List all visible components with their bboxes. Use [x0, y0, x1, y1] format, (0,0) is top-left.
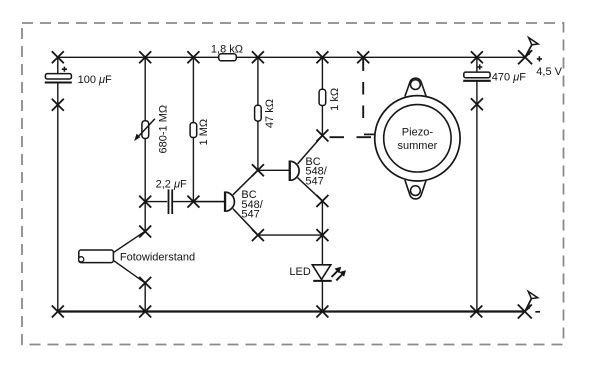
- svg-text:summer: summer: [398, 140, 438, 152]
- svg-text:2,2 μF: 2,2 μF: [156, 178, 187, 190]
- svg-text:1 kΩ: 1 kΩ: [329, 88, 341, 111]
- svg-text:470 μF: 470 μF: [492, 72, 526, 84]
- svg-text:4,5 V: 4,5 V: [536, 66, 562, 78]
- svg-text:100 μF: 100 μF: [78, 74, 112, 86]
- svg-text:LED: LED: [289, 266, 310, 278]
- svg-text:547: 547: [241, 209, 259, 221]
- svg-text:1 MΩ: 1 MΩ: [198, 119, 210, 146]
- svg-text:Piezo-: Piezo-: [402, 126, 434, 138]
- svg-text:47 kΩ: 47 kΩ: [264, 99, 276, 128]
- svg-text:1,8 kΩ: 1,8 kΩ: [211, 43, 243, 55]
- svg-text:680-1 MΩ: 680-1 MΩ: [158, 105, 170, 154]
- svg-text:547: 547: [305, 175, 323, 187]
- svg-text:Fotowiderstand: Fotowiderstand: [120, 251, 195, 263]
